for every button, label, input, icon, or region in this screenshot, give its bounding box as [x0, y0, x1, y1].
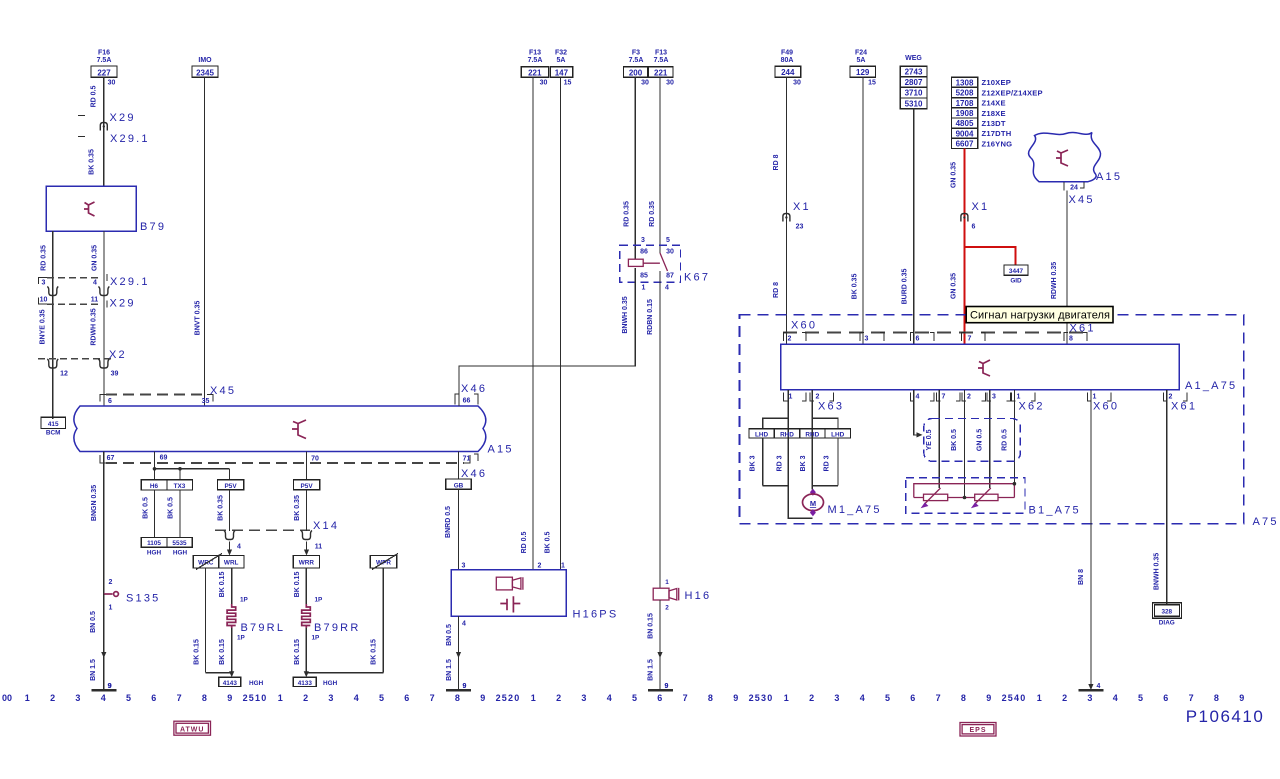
svg-text:BCM: BCM	[46, 430, 61, 437]
clip X14 left	[224, 531, 235, 540]
svg-text:Z13DT: Z13DT	[982, 119, 1006, 128]
wire X62-2 (BK 0.5)	[964, 390, 966, 498]
svg-text:1P: 1P	[240, 597, 249, 604]
wire F3 to K67 coil (RD 0.35)	[634, 77, 636, 259]
svg-text:2: 2	[109, 579, 113, 586]
svg-text:F3: F3	[632, 50, 640, 57]
svg-text:RDBN 0.15: RDBN 0.15	[647, 299, 654, 335]
svg-text:3: 3	[834, 693, 839, 703]
svg-text:F32: F32	[555, 50, 567, 57]
svg-text:1: 1	[1093, 394, 1097, 401]
svg-text:A15: A15	[1096, 171, 1122, 183]
svg-text:BNRD 0.5: BNRD 0.5	[445, 506, 452, 538]
svg-text:BK 0.15: BK 0.15	[294, 639, 301, 665]
svg-text:147: 147	[555, 68, 569, 77]
wire P5V to X14 pin 11 (BK 0.35)	[306, 490, 308, 531]
reference boxes 1105 / 5535 HGH	[141, 537, 192, 547]
svg-text:2: 2	[303, 693, 308, 703]
svg-text:11: 11	[315, 544, 323, 551]
K67 coil symbol	[628, 259, 643, 266]
svg-text:5: 5	[632, 693, 637, 703]
svg-text:5: 5	[1138, 693, 1143, 703]
svg-text:1P: 1P	[312, 635, 321, 642]
svg-text:BK 0.15: BK 0.15	[219, 572, 226, 598]
svg-text:B79RL: B79RL	[241, 622, 286, 634]
wire B79 pin RD 0.35 down-left	[52, 231, 54, 419]
wire F13 to H16PS pin2 (RD 0.5)	[532, 77, 534, 569]
svg-text:BK 0.5: BK 0.5	[951, 429, 958, 451]
pin 6 of X60	[911, 333, 915, 342]
fuse F16 box 227	[91, 66, 117, 77]
washer jet heater B79RR	[302, 604, 311, 628]
svg-text:5: 5	[885, 693, 890, 703]
pin 2 of X61 (bottom)	[1164, 393, 1168, 402]
accelerator pedal module A75 dashed box	[740, 315, 1244, 524]
svg-text:1: 1	[789, 394, 793, 401]
svg-text:RD 3: RD 3	[824, 455, 831, 471]
svg-text:B79: B79	[140, 221, 166, 233]
wire F16 to B79 (RD 0.5)	[103, 77, 105, 186]
fuse F13 box 221 (right)	[648, 67, 673, 78]
svg-text:F49: F49	[781, 50, 793, 57]
svg-text:30: 30	[793, 80, 801, 87]
fuse F32 box 147	[550, 67, 572, 78]
svg-text:5: 5	[126, 693, 131, 703]
svg-text:30: 30	[108, 80, 116, 87]
svg-text:BK 0.15: BK 0.15	[219, 639, 226, 665]
svg-text:5: 5	[379, 693, 384, 703]
pin 3 of X60	[860, 333, 864, 342]
ground at rail 2518 (H16PS branch)	[446, 689, 471, 692]
harness code ATWU box	[174, 721, 211, 735]
svg-text:BK 0.5: BK 0.5	[143, 497, 150, 519]
svg-text:BNWH 0.35: BNWH 0.35	[1154, 553, 1161, 590]
svg-text:129: 129	[856, 68, 870, 77]
svg-text:F13: F13	[655, 50, 667, 57]
svg-text:BNYE 0.35: BNYE 0.35	[40, 309, 47, 344]
svg-text:6: 6	[972, 224, 976, 231]
wire TX3 to 5535 (BK 0.5)	[179, 490, 181, 537]
svg-text:200: 200	[629, 68, 643, 77]
svg-text:00: 00	[2, 693, 12, 703]
A15 connector symbol	[292, 420, 306, 439]
svg-text:244: 244	[781, 68, 795, 77]
wire BK 3 right	[837, 438, 839, 486]
tooltip: engine load signal	[966, 307, 1113, 323]
svg-text:1: 1	[531, 693, 536, 703]
svg-text:BURD 0.35: BURD 0.35	[902, 269, 909, 305]
svg-text:M: M	[810, 499, 816, 508]
svg-text:1: 1	[1037, 693, 1042, 703]
connector X45 line above A15	[106, 394, 207, 396]
svg-text:X62: X62	[1019, 401, 1045, 413]
svg-text:2530: 2530	[749, 693, 774, 703]
wire IMO to X45 pin 35 (BNVT 0.35)	[203, 77, 205, 406]
svg-text:7.5A: 7.5A	[629, 57, 644, 64]
pin 2 of X62	[962, 393, 966, 402]
svg-text:WRL: WRL	[224, 560, 239, 567]
svg-text:X45: X45	[210, 385, 236, 397]
svg-text:IMO: IMO	[198, 57, 212, 64]
svg-text:A1_A75: A1_A75	[1185, 380, 1237, 392]
wire F49 to X1 (RD 8)	[785, 77, 787, 344]
svg-text:X60: X60	[1093, 401, 1119, 413]
svg-text:67: 67	[107, 455, 115, 462]
svg-text:3: 3	[641, 237, 645, 244]
splice S135	[104, 593, 113, 595]
svg-text:2: 2	[788, 336, 792, 343]
svg-text:4: 4	[237, 544, 241, 551]
ground G at rail 2504 (S135 branch)	[91, 689, 116, 692]
svg-text:HGH: HGH	[249, 680, 264, 687]
svg-text:K67: K67	[684, 272, 710, 284]
wire X62-4 shield stub	[914, 390, 919, 435]
svg-text:39: 39	[111, 371, 119, 378]
svg-text:RD 8: RD 8	[773, 154, 780, 170]
svg-text:5A: 5A	[857, 57, 866, 64]
strike-through on WRC variant	[196, 554, 222, 570]
B1_A75 resistor network	[914, 484, 1015, 498]
svg-text:6: 6	[108, 398, 112, 405]
wire WPR branch (BK 0.15)	[382, 568, 384, 673]
svg-text:4: 4	[462, 621, 466, 628]
svg-text:BNWH 0.35: BNWH 0.35	[622, 296, 629, 333]
svg-text:3: 3	[581, 693, 586, 703]
svg-text:F16: F16	[98, 50, 110, 57]
reference box 4133 HGH	[293, 677, 316, 686]
svg-text:6: 6	[1163, 693, 1168, 703]
svg-text:1: 1	[109, 605, 113, 612]
wire H16 to ground (BN 0.15 / BN 1.5)	[659, 600, 661, 690]
svg-text:S135: S135	[126, 593, 161, 605]
svg-text:GB: GB	[454, 482, 464, 489]
connector line X60/X61 on A75	[783, 332, 1087, 334]
svg-text:M1_A75: M1_A75	[828, 504, 882, 516]
svg-text:5535: 5535	[172, 540, 187, 547]
coordinate ruler scale 2500-2549	[2, 693, 1244, 703]
connector X14 line	[215, 529, 310, 531]
svg-text:HGH: HGH	[173, 550, 188, 557]
K67 switch contact	[660, 253, 668, 271]
svg-text:415: 415	[48, 421, 59, 428]
svg-text:LHD: LHD	[831, 431, 845, 438]
svg-text:YE 0.5: YE 0.5	[926, 429, 933, 450]
svg-text:9004: 9004	[956, 129, 974, 138]
svg-text:RD 0.5: RD 0.5	[91, 86, 98, 108]
svg-text:3: 3	[328, 693, 333, 703]
svg-text:2345: 2345	[196, 68, 214, 77]
svg-text:5310: 5310	[905, 100, 923, 109]
wire S135 to ground BN 0.5 / BN 1.5	[103, 594, 105, 690]
harness code EPS box	[960, 723, 996, 737]
svg-text:GN 0.5: GN 0.5	[977, 429, 984, 451]
svg-text:WEG: WEG	[905, 55, 922, 62]
wire X45-24 to X61 pin8 (RDWH 0.35)	[1066, 191, 1068, 345]
horn relay K67 dashed box	[620, 245, 681, 282]
pin 1 of X63	[783, 393, 787, 402]
svg-text:TX3: TX3	[174, 483, 186, 490]
B1 wiper 1	[925, 488, 941, 504]
reference box GB	[446, 479, 471, 489]
svg-text:2: 2	[967, 394, 971, 401]
wire F32 to H16PS pin1 (BK 0.5)	[560, 77, 562, 569]
svg-text:6: 6	[657, 693, 662, 703]
svg-text:5A: 5A	[557, 57, 566, 64]
wire X63-2 to motor	[811, 390, 813, 490]
variant tie LHD right	[812, 418, 838, 429]
svg-text:15: 15	[564, 80, 572, 87]
wire WRC branch (BK 0.15)	[205, 568, 207, 673]
IMO box 2345	[192, 66, 218, 77]
body control module reference box 415 BCM	[41, 417, 66, 428]
wire K67 pin4 to horn H16 (RDBN 0.15)	[659, 271, 661, 588]
svg-text:H16PS: H16PS	[573, 609, 619, 621]
clip X29.1 right	[98, 287, 109, 296]
svg-text:2743: 2743	[905, 68, 923, 77]
svg-text:BN 1.5: BN 1.5	[648, 659, 655, 681]
pin 1 of X60 (bottom)	[1088, 393, 1092, 402]
svg-text:LHD: LHD	[755, 431, 769, 438]
horn with alarm H16PS box	[451, 570, 566, 616]
svg-text:2520: 2520	[496, 693, 521, 703]
svg-text:X61: X61	[1171, 401, 1197, 413]
svg-text:RD 0.35: RD 0.35	[41, 245, 48, 271]
engine control unit A15 main box	[74, 406, 486, 452]
svg-text:8: 8	[1214, 693, 1219, 703]
svg-text:35: 35	[202, 398, 210, 405]
connector X29 line with pins 10 and 11	[47, 303, 100, 305]
svg-text:1P: 1P	[237, 635, 246, 642]
svg-text:Z14XE: Z14XE	[982, 99, 1006, 108]
svg-text:4: 4	[1113, 693, 1118, 703]
engine variant code stack 1308..6607	[951, 77, 977, 87]
reference boxes H6 / TX3	[141, 480, 192, 490]
pedal position sensor B1_A75 dashed box	[906, 478, 1025, 513]
svg-text:BK 3: BK 3	[800, 455, 807, 471]
wire A15 pin71 to GB box	[458, 452, 460, 480]
svg-text:66: 66	[463, 398, 471, 405]
svg-text:X29.1: X29.1	[110, 276, 150, 288]
svg-text:3: 3	[42, 280, 46, 287]
fuse F49 box 244	[775, 66, 801, 77]
B1 wiper 2	[975, 488, 991, 504]
svg-text:6: 6	[404, 693, 409, 703]
svg-text:Z18XE: Z18XE	[982, 109, 1006, 118]
svg-text:1: 1	[561, 563, 565, 570]
clip X2 right	[98, 359, 109, 368]
connector X29.1 line with pins 3 and 4	[47, 277, 100, 279]
svg-text:X46: X46	[461, 383, 487, 395]
svg-text:9: 9	[227, 693, 232, 703]
svg-text:X2: X2	[109, 349, 127, 361]
pin 2 of X60	[783, 333, 787, 342]
H16PS horn symbol	[496, 577, 512, 590]
horn H16 symbol	[653, 588, 669, 600]
wire K67 pin1 to A15 X46 pin66 (BNWH 0.35)	[459, 268, 635, 406]
svg-text:221: 221	[654, 68, 668, 77]
svg-text:1: 1	[1017, 394, 1021, 401]
svg-text:BN 1.5: BN 1.5	[446, 659, 453, 681]
wire X62-3 (GN 0.5)	[989, 390, 991, 488]
H16PS capacitor symbol	[500, 596, 520, 612]
svg-text:Сигнал нагрузки двигателя: Сигнал нагрузки двигателя	[970, 310, 1110, 322]
svg-text:BN 0.5: BN 0.5	[446, 624, 453, 646]
twisted leads dashed box	[924, 419, 1020, 462]
svg-text:2: 2	[809, 693, 814, 703]
svg-text:X45: X45	[1069, 194, 1095, 206]
svg-text:1: 1	[642, 285, 646, 292]
svg-text:BNVT 0.35: BNVT 0.35	[195, 301, 202, 336]
svg-text:X60: X60	[791, 320, 817, 332]
svg-text:1908: 1908	[956, 109, 974, 118]
svg-text:BK 0.35: BK 0.35	[852, 274, 859, 300]
svg-text:6: 6	[916, 336, 920, 343]
pin 4 of X62	[911, 393, 915, 402]
svg-text:2: 2	[556, 693, 561, 703]
svg-text:4: 4	[860, 693, 865, 703]
wire X62-7 (YE 0.5)	[938, 390, 940, 488]
wire A15 pin69 branch node	[154, 452, 156, 480]
wire A15 pin67 to S135 (BNGN 0.35)	[103, 452, 105, 595]
svg-text:X1: X1	[972, 201, 990, 213]
svg-text:GN 0.35: GN 0.35	[951, 162, 958, 188]
wire X14 to WRR with arrow	[306, 542, 308, 553]
svg-text:Z17DTH: Z17DTH	[982, 129, 1012, 138]
svg-text:86: 86	[640, 249, 648, 256]
svg-text:B79RR: B79RR	[314, 622, 360, 634]
svg-text:EPS: EPS	[969, 727, 986, 734]
instrument reference box 3447 GID	[1004, 265, 1028, 275]
svg-text:23: 23	[796, 224, 804, 231]
svg-text:8: 8	[202, 693, 207, 703]
ground at rail 2543 (EPS BN 8)	[1078, 689, 1103, 692]
svg-text:11: 11	[91, 297, 99, 304]
svg-text:HGH: HGH	[323, 680, 338, 687]
variant box WRR	[293, 556, 319, 568]
throttle actuator motor M1_A75	[810, 489, 816, 496]
svg-text:1308: 1308	[956, 78, 974, 87]
svg-text:7: 7	[936, 693, 941, 703]
wire A15 pin70 to P5V right	[306, 452, 308, 480]
wire X62-1 (RD 0.5)	[1013, 390, 1015, 485]
pin 24 bracket of X45	[1063, 182, 1065, 191]
svg-text:RD 3: RD 3	[777, 455, 784, 471]
svg-text:DIAG: DIAG	[1159, 620, 1175, 627]
svg-text:X29: X29	[110, 298, 136, 310]
reference box P5V (left)	[218, 480, 244, 490]
svg-text:RD 0.5: RD 0.5	[521, 532, 528, 554]
svg-text:BN 8: BN 8	[1078, 569, 1085, 585]
svg-text:H6: H6	[150, 483, 159, 490]
svg-text:Z12XEP/Z14XEP: Z12XEP/Z14XEP	[982, 88, 1043, 97]
svg-text:4: 4	[354, 693, 359, 703]
B79 connector symbol	[84, 202, 95, 216]
svg-text:4133: 4133	[298, 680, 313, 687]
svg-text:24: 24	[1070, 185, 1078, 192]
connector X1 clip (right)	[961, 214, 968, 222]
svg-text:GID: GID	[1010, 278, 1022, 285]
svg-text:4: 4	[93, 280, 97, 287]
pin 7 of X61	[962, 333, 966, 342]
pedal electronics A1_A75 box	[781, 344, 1179, 390]
svg-text:30: 30	[666, 249, 674, 256]
svg-text:H16: H16	[685, 590, 712, 602]
svg-text:X14: X14	[313, 520, 339, 532]
svg-text:X1: X1	[793, 201, 811, 213]
wire X60-1 to ground (BN 8)	[1090, 390, 1092, 690]
svg-text:GN 0.35: GN 0.35	[951, 273, 958, 299]
svg-text:RD 0.35: RD 0.35	[624, 201, 631, 227]
wire WEG to X60 pin6 (BURD 0.35)	[913, 109, 915, 344]
svg-text:7: 7	[1189, 693, 1194, 703]
svg-text:BK 0.5: BK 0.5	[168, 497, 175, 519]
svg-text:BK 0.15: BK 0.15	[294, 572, 301, 598]
svg-text:15: 15	[868, 80, 876, 87]
svg-text:9: 9	[108, 683, 112, 690]
svg-text:1: 1	[665, 579, 669, 586]
svg-text:BK 0.15: BK 0.15	[194, 639, 201, 665]
svg-text:30: 30	[666, 80, 674, 87]
svg-text:BK 0.35: BK 0.35	[294, 495, 301, 521]
svg-text:B1_A75: B1_A75	[1029, 505, 1081, 517]
clip X2 left	[47, 359, 58, 368]
svg-text:Z10XEP: Z10XEP	[982, 78, 1011, 87]
svg-text:RDWH 0.35: RDWH 0.35	[1051, 262, 1058, 299]
svg-text:BN 0.5: BN 0.5	[90, 611, 97, 633]
svg-text:2807: 2807	[905, 78, 923, 87]
variant boxes WRC / WRL	[193, 556, 244, 568]
svg-text:3710: 3710	[905, 89, 923, 98]
pin 7 of X62	[937, 393, 941, 402]
svg-text:RD 0.35: RD 0.35	[649, 201, 656, 227]
svg-text:2: 2	[50, 693, 55, 703]
pin 3 of X62	[987, 393, 991, 402]
svg-text:85: 85	[640, 273, 648, 280]
svg-text:HGH: HGH	[147, 550, 162, 557]
svg-text:8: 8	[1069, 336, 1073, 343]
svg-text:F13: F13	[529, 50, 541, 57]
svg-text:1P: 1P	[315, 597, 324, 604]
svg-text:BK 0.5: BK 0.5	[545, 532, 552, 554]
svg-text:7.5A: 7.5A	[654, 57, 669, 64]
reference box 4143 HGH	[219, 677, 241, 686]
red branch to GID	[964, 247, 1015, 265]
wire F24 to X60 pin3 (BK 0.35)	[862, 77, 864, 344]
svg-text:RHD: RHD	[780, 431, 794, 438]
variant box WPR (struck)	[370, 556, 396, 568]
connector X2 line	[38, 358, 115, 360]
variant boxes LHD RHD RHD LHD	[749, 429, 850, 438]
svg-text:4: 4	[665, 285, 669, 292]
svg-text:8: 8	[961, 693, 966, 703]
svg-text:30: 30	[641, 80, 649, 87]
svg-text:7: 7	[942, 394, 946, 401]
svg-text:9: 9	[986, 693, 991, 703]
svg-text:5: 5	[666, 237, 670, 244]
wire WRL to heater B79RL (BK 0.15)	[231, 568, 233, 604]
svg-text:X63: X63	[818, 401, 844, 413]
wire BK 3 left	[762, 438, 764, 486]
washer jet heater B79RL	[227, 604, 236, 628]
fuse F13 box 221	[521, 67, 548, 78]
connector X29.1 label	[78, 136, 85, 138]
clip X29.1 left	[47, 287, 58, 296]
svg-text:BK 0.15: BK 0.15	[371, 639, 378, 665]
svg-text:A75: A75	[1253, 516, 1279, 528]
diagnostic reference box 328 DIAG	[1155, 605, 1180, 617]
svg-text:7.5A: 7.5A	[97, 57, 112, 64]
wire B79 GN 0.35 down-right	[103, 231, 105, 406]
